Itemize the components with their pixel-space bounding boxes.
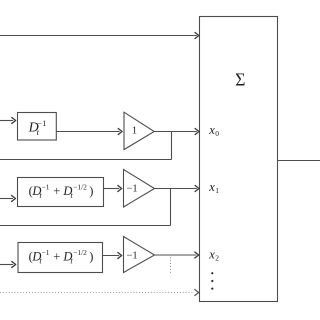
svg-text:x: x bbox=[208, 123, 215, 137]
block B3 (D_t^-1 + D_t^-1/2) bbox=[18, 243, 103, 273]
svg-text:1: 1 bbox=[132, 126, 137, 137]
svg-text:+: + bbox=[53, 184, 60, 198]
svg-text:−1: −1 bbox=[42, 182, 50, 191]
wire A1 to Σ (x0) bbox=[154, 131, 197, 133]
svg-text:−1/2: −1/2 bbox=[73, 248, 87, 257]
svg-text:−1: −1 bbox=[42, 248, 50, 257]
amplifier A3 (gain -1) bbox=[124, 237, 155, 273]
svg-text:x: x bbox=[208, 180, 215, 194]
arrowhead row2 input bbox=[11, 195, 15, 202]
dotted continuation branch row3 down bbox=[170, 257, 172, 274]
label x0 bbox=[208, 123, 219, 138]
block B2 (D_t^-1 + D_t^-1/2) bbox=[18, 178, 104, 207]
label x1 bbox=[208, 180, 219, 195]
output wire of Σ bbox=[278, 160, 320, 162]
arrowhead into A2 bbox=[117, 185, 121, 192]
amplifier A1 (gain 1) bbox=[124, 112, 154, 149]
svg-text:Σ: Σ bbox=[235, 70, 245, 90]
svg-text:−1: −1 bbox=[127, 250, 138, 261]
arrowhead row1 input bbox=[11, 117, 15, 124]
label x2 bbox=[208, 247, 219, 262]
arrowhead x2 into Σ bbox=[194, 252, 198, 259]
svg-text:x: x bbox=[208, 247, 215, 261]
wire row2 input bbox=[0, 198, 13, 200]
node branch row1 down bbox=[171, 132, 173, 160]
wire B2 to amp A2 bbox=[104, 188, 120, 190]
wire top input row into Σ bbox=[0, 35, 197, 37]
wire row3 input bbox=[0, 264, 13, 266]
svg-text:−1: −1 bbox=[127, 184, 138, 195]
block B1 (D_t^-1) bbox=[18, 113, 57, 141]
arrowhead dotted row into Σ bbox=[194, 289, 198, 296]
svg-text:1: 1 bbox=[215, 186, 219, 195]
arrowhead x0 into Σ bbox=[195, 128, 199, 135]
wire branch row1 to left edge bbox=[0, 159, 172, 161]
svg-text:2: 2 bbox=[215, 254, 219, 263]
svg-text:): ) bbox=[89, 184, 93, 198]
wire branch row2 to left edge bbox=[0, 225, 171, 227]
wire row1 input bbox=[0, 120, 13, 122]
arrowhead x1 into Σ bbox=[195, 185, 199, 192]
vertical ellipsis inside Σ bbox=[211, 272, 213, 290]
wire B3 to amp A3 bbox=[103, 255, 120, 257]
summation block U1 (Σ) bbox=[200, 17, 278, 302]
svg-text:0: 0 bbox=[215, 129, 219, 138]
wire A3 to Σ (x2) bbox=[155, 254, 197, 256]
svg-text:+: + bbox=[53, 249, 60, 263]
svg-text:−1/2: −1/2 bbox=[73, 182, 87, 191]
arrowhead into A3 bbox=[117, 252, 121, 259]
arrowhead top input bbox=[195, 32, 199, 39]
node branch row2 down bbox=[170, 189, 172, 226]
wire B1 to amp A1 bbox=[56, 131, 119, 133]
svg-text:−1: −1 bbox=[37, 118, 46, 128]
svg-text:): ) bbox=[89, 249, 93, 263]
wire A2 to Σ (x1) bbox=[155, 188, 197, 190]
amplifier A2 (gain -1) bbox=[124, 170, 155, 208]
arrowhead row3 input bbox=[11, 261, 15, 268]
dotted wire bottom row into Σ bbox=[0, 292, 193, 294]
arrowhead into A1 bbox=[118, 128, 122, 135]
